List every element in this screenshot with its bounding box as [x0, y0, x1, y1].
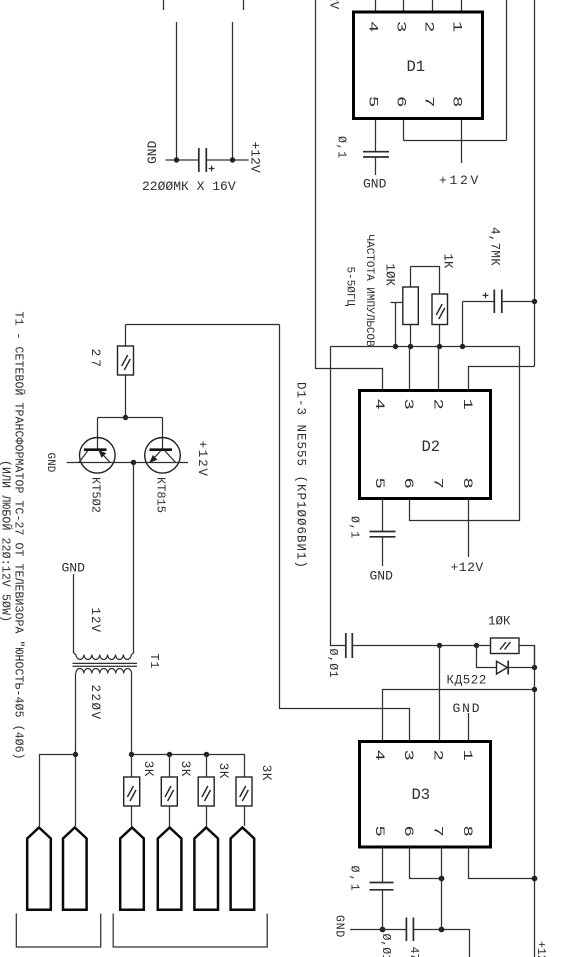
- T1 220V winding arcs: [76, 669, 132, 674]
- bracket X1: [16, 914, 100, 948]
- node dot right of C2200: [230, 157, 235, 162]
- wire 0,01 right to D3 pin2 node: [352, 645, 490, 647]
- svg-text:GND: GND: [453, 701, 482, 716]
- node dots on line: [393, 344, 398, 349]
- wire C2200 horizontal left: [166, 159, 199, 161]
- wire D3 pin4 to bus: [383, 690, 535, 742]
- 3K bus line: [132, 755, 245, 778]
- node dot emitters junction: [131, 460, 136, 465]
- svg-text:27: 27: [88, 349, 103, 371]
- svg-text:D1: D1: [407, 58, 426, 76]
- wire D2 pin8 down to +12V: [468, 499, 470, 557]
- wire D1 pin8 down to +12V: [461, 120, 463, 163]
- wire C2200 horizontal right: [207, 159, 249, 161]
- diode KD522 branch wire: [477, 646, 497, 668]
- diode KD522 cathode bar: [507, 661, 509, 675]
- svg-text:2: 2: [421, 21, 435, 32]
- bracket X2: [113, 914, 267, 948]
- svg-text:47МК: 47МК: [407, 947, 420, 957]
- wire below 0,1 cap to GND: [375, 157, 377, 175]
- capacitor 0,1 at D2 pin5: [370, 531, 396, 533]
- D2 pin3 stub: [409, 347, 411, 391]
- svg-text:ЧАСТОТА ИМПУЛЬСОВ: ЧАСТОТА ИМПУЛЬСОВ: [363, 235, 375, 348]
- wire GND down to 12V winding: [73, 574, 75, 653]
- svg-text:Ø,1: Ø,1: [348, 516, 361, 539]
- IC D3 box: [360, 742, 491, 848]
- transistor Q1 KT502 circle: [80, 438, 116, 474]
- Q1 collector diagonal: [79, 451, 88, 463]
- node line above D2: [331, 346, 520, 348]
- resistor 3K no4: [236, 777, 252, 806]
- resistor 1K body: [432, 294, 448, 325]
- GND line right part to bottom edge: [413, 930, 469, 957]
- svg-text:5: 5: [365, 96, 379, 107]
- svg-text:D1-3 NE555 (КР1ØØ6ВИ1): D1-3 NE555 (КР1ØØ6ВИ1): [294, 382, 308, 569]
- svg-text:2: 2: [430, 399, 444, 410]
- capacitor C 2200MK x 16V plates: [198, 148, 200, 172]
- resistor 1K power marks: [436, 304, 442, 315]
- wire D3 pin6: [410, 847, 442, 879]
- svg-text:КД522: КД522: [447, 674, 488, 688]
- 1K bottom wire: [439, 325, 441, 347]
- bus from transistors down left side: [280, 325, 410, 742]
- transistor Q2 KT815 base stub: [162, 418, 164, 450]
- svg-text:4: 4: [372, 399, 386, 410]
- wire D3 pin5 down: [382, 847, 384, 882]
- svg-text:+12V: +12V: [327, 0, 342, 9]
- svg-text:3: 3: [401, 399, 415, 410]
- bus from node line left end down to 0,01 cap: [331, 347, 346, 646]
- capacitor 0,01 plates: [345, 633, 347, 658]
- svg-text:Ø,1: Ø,1: [348, 866, 361, 893]
- svg-text:3К: 3К: [178, 761, 193, 778]
- wire D3 pin7 down through both nodes: [441, 847, 443, 930]
- wire D1 pin5 down: [375, 120, 377, 151]
- resistor 10K power marks: [500, 642, 506, 650]
- wire from top to C 2200 left: [176, 22, 178, 160]
- diode KD522 triangle: [497, 661, 508, 674]
- svg-text:D2: D2: [422, 438, 441, 456]
- svg-text:+12V: +12V: [534, 941, 547, 957]
- svg-text:Ø,Ø1: Ø,Ø1: [326, 649, 339, 679]
- svg-text:1ØК: 1ØК: [383, 264, 397, 287]
- capacitor 4,7MK plates: [493, 290, 495, 314]
- node dots on 3K bus: [129, 752, 134, 757]
- svg-text:1: 1: [460, 399, 474, 410]
- Q2 emitter diagonal NPN: [150, 451, 161, 463]
- base link line: [98, 417, 163, 419]
- Q2 collector diagonal: [165, 451, 176, 463]
- svg-text:GND: GND: [44, 453, 56, 473]
- IC D1 box: [354, 12, 483, 119]
- wire from top to C 2200 right: [232, 22, 234, 160]
- svg-text:GND: GND: [363, 177, 387, 192]
- wire below cap to GND: [382, 537, 384, 566]
- resistor 3K no1: [124, 777, 140, 806]
- svg-text:3К: 3К: [259, 765, 274, 782]
- node dot pins 6-7 on GND line: [439, 927, 445, 933]
- connector pin X2-2: [158, 828, 182, 910]
- capacitor 0,1 at D3 pin5: [370, 882, 394, 884]
- node dot pin4 line to bus: [532, 687, 537, 692]
- wire 220V left end down: [75, 674, 77, 827]
- wire D2 pin5 down: [382, 499, 384, 531]
- wire bus down to R 3K no1: [131, 755, 133, 778]
- svg-text:Ø,Ø1: Ø,Ø1: [379, 934, 392, 957]
- diode cathode wire to bus: [508, 667, 534, 669]
- svg-text:GND: GND: [62, 561, 86, 576]
- svg-text:1К: 1К: [441, 254, 455, 270]
- svg-text:6: 6: [401, 478, 415, 489]
- T1 12V winding arcs: [74, 652, 134, 660]
- svg-text:7: 7: [430, 826, 444, 837]
- wire D1 pin6 down: [403, 120, 405, 141]
- D2 pin2 stub: [438, 347, 440, 391]
- svg-text:5-5ØГЦ: 5-5ØГЦ: [344, 267, 356, 307]
- svg-text:1ØК: 1ØК: [488, 615, 511, 629]
- T1 core lines: [73, 662, 138, 664]
- svg-text:Ø,1: Ø,1: [335, 136, 348, 159]
- emitter rail through both transistors: [67, 462, 188, 464]
- connector pin X2-1: [120, 828, 144, 910]
- IC D2 box: [360, 391, 491, 499]
- wire R27 to bases: [125, 375, 127, 418]
- node dot diode branch: [474, 643, 479, 648]
- svg-text:3: 3: [401, 750, 415, 761]
- wires 3K resistors down to pins: [131, 806, 133, 826]
- 10K wiper tap: [391, 302, 403, 304]
- svg-text:1: 1: [449, 21, 463, 32]
- wire 10K right to +12V bus corner: [519, 646, 535, 668]
- Q1 emitter diagonal with PNP arrow to base: [99, 451, 110, 463]
- node dot 4,7MK to +12V bus: [532, 299, 537, 304]
- capacitor 4,7MK wires: [463, 301, 494, 303]
- 1K top wire and link to 10K top: [411, 267, 440, 295]
- op IC D1 pin stubs top: [375, 0, 377, 11]
- +12V bus right segment B down to bottom: [534, 646, 536, 957]
- svg-text:КТ815: КТ815: [154, 477, 168, 513]
- 10K top wire: [410, 267, 412, 288]
- D3 pin2 stub from 0,01 node: [439, 646, 441, 742]
- connector pin X1-1: [27, 828, 51, 910]
- svg-text:GND: GND: [370, 569, 394, 584]
- transistor Q1 KT502 base stub: [97, 418, 99, 450]
- svg-text:4: 4: [365, 21, 379, 32]
- GND line left part: [350, 929, 406, 931]
- bus x506 from top: [506, 0, 508, 141]
- svg-text:D3: D3: [412, 786, 431, 804]
- svg-text:GND: GND: [333, 915, 346, 938]
- svg-text:(ИЛИ ЛЮБОЙ 22Ø:12V 5ØW): (ИЛИ ЛЮБОЙ 22Ø:12V 5ØW): [0, 460, 13, 622]
- svg-text:6: 6: [401, 826, 415, 837]
- resistor 10K horizontal body: [491, 638, 520, 654]
- svg-text:4: 4: [372, 750, 386, 761]
- svg-text:22ØØМК Х 16V: 22ØØМК Х 16V: [142, 179, 236, 194]
- potentiometer 10K body: [403, 287, 419, 325]
- wire stub cut at top edge right: [243, 0, 245, 10]
- svg-text:7: 7: [421, 96, 435, 107]
- svg-text:3К: 3К: [216, 763, 231, 780]
- svg-text:+12V: +12V: [439, 173, 481, 188]
- svg-text:8: 8: [460, 478, 474, 489]
- resistor 3K no3: [198, 777, 214, 806]
- node dot at GND line: [380, 927, 386, 933]
- svg-text:Т1: Т1: [147, 654, 160, 670]
- svg-text:7: 7: [430, 478, 444, 489]
- wires bus down to R 3K no2 no3: [169, 755, 171, 778]
- node dot at base line: [123, 415, 128, 420]
- svg-text:1: 1: [460, 750, 474, 761]
- wire GND to D3 pin1: [468, 713, 470, 742]
- svg-text:5: 5: [372, 478, 386, 489]
- resistor 27 power marks: [122, 355, 128, 366]
- 10K bottom wire: [410, 325, 412, 347]
- svg-text:6: 6: [393, 96, 407, 107]
- svg-text:+12V: +12V: [451, 560, 484, 575]
- resistor 27 body: [118, 346, 134, 375]
- node dot left connector split: [73, 752, 78, 757]
- svg-text:Т1 - СЕТЕВОЙ ТРАНСФОРМАТОР ТС-: Т1 - СЕТЕВОЙ ТРАНСФОРМАТОР ТС-27 ОТ ТЕЛЕ…: [12, 312, 26, 760]
- svg-text:КТ5Ø2: КТ5Ø2: [89, 477, 103, 513]
- svg-text:3: 3: [393, 21, 407, 32]
- capacitor 0,01 bottom plates: [405, 918, 407, 942]
- svg-text:4,7МК: 4,7МК: [488, 227, 502, 266]
- bus x315 from top to D2 pin4: [316, 0, 383, 391]
- node dot diode to bus: [532, 665, 537, 670]
- svg-text:+12V: +12V: [248, 142, 263, 173]
- Q1 base bar: [84, 448, 107, 451]
- svg-text:12V: 12V: [88, 608, 102, 634]
- wire top link to transistor base resistor: [126, 324, 280, 326]
- wire stub cut at top edge left: [163, 0, 165, 10]
- node dot D3 pin2: [437, 643, 442, 648]
- wire to D2 pin1 from right bus: [469, 367, 535, 391]
- svg-text:8: 8: [449, 96, 463, 107]
- wire down to R27: [125, 325, 127, 347]
- svg-text:2: 2: [430, 750, 444, 761]
- +12V bus right segment A from top: [534, 0, 536, 367]
- resistor 3K no2: [161, 777, 177, 806]
- capacitor 0,1 at D1 pin5: [363, 151, 389, 153]
- svg-text:3К: 3К: [141, 761, 156, 778]
- svg-text:GND: GND: [145, 140, 160, 164]
- plus sign of 2200MK cap: [209, 168, 215, 170]
- Q2 NPN arrowhead at emitter: [149, 455, 157, 463]
- wire 4,7MK left down to node line: [462, 302, 464, 347]
- svg-text:5: 5: [372, 826, 386, 837]
- bus from node line down right side to D2 pin6: [410, 347, 520, 521]
- Q2 base bar: [150, 448, 173, 451]
- svg-text:+12V: +12V: [195, 441, 209, 478]
- transistor Q2 KT815 circle: [145, 438, 181, 474]
- wire 220V right end down: [131, 674, 133, 755]
- connector pin X2-4: [231, 828, 255, 910]
- connector pin X1-2: [63, 828, 87, 910]
- svg-text:8: 8: [460, 826, 474, 837]
- node dot pin8 to bus: [532, 876, 538, 882]
- wire D1 pin6 to right bus: [404, 140, 507, 142]
- node dot left of C2200: [174, 157, 179, 162]
- wire branch to left pin: [40, 755, 76, 827]
- wire D3 pin8 to +12V bus: [469, 847, 535, 879]
- Q1 PNP arrowhead: [98, 450, 106, 458]
- svg-text:22ØV: 22ØV: [88, 685, 102, 721]
- wire below cap to GND line: [382, 890, 384, 930]
- connector pin X2-3: [194, 828, 218, 910]
- node dot pin6-pin7: [439, 876, 445, 882]
- plus sign of 4,7MK: [483, 294, 489, 296]
- wire emitters down to T1 12V winding: [133, 463, 135, 654]
